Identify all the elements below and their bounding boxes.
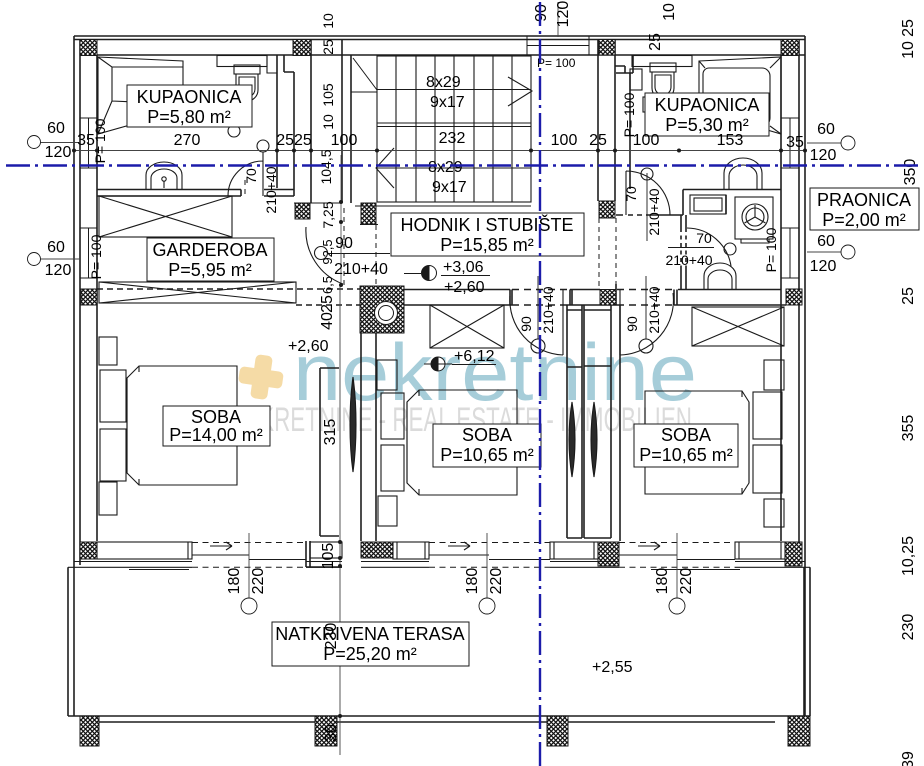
svg-text:+2,55: +2,55 [592, 659, 633, 676]
svg-text:350: 350 [902, 159, 919, 186]
svg-text:25: 25 [589, 132, 607, 149]
svg-text:120: 120 [45, 262, 72, 279]
svg-text:10: 10 [661, 3, 678, 21]
svg-text:180: 180 [464, 568, 481, 595]
svg-text:70: 70 [696, 230, 712, 246]
svg-text:P=2,00 m²: P=2,00 m² [822, 210, 906, 230]
svg-text:60: 60 [817, 121, 835, 138]
svg-text:+2,60: +2,60 [288, 338, 329, 355]
svg-text:P=14,00 m²: P=14,00 m² [169, 425, 263, 445]
svg-text:230: 230 [900, 614, 917, 641]
svg-text:SOBA: SOBA [191, 407, 241, 427]
svg-text:P= 100: P= 100 [88, 234, 104, 279]
svg-text:2525: 2525 [276, 132, 312, 149]
svg-text:104,5: 104,5 [318, 149, 334, 184]
svg-text:P= 100: P= 100 [537, 56, 576, 70]
svg-text:210+40: 210+40 [665, 252, 712, 268]
svg-text:HODNIK I STUBIŠTE: HODNIK I STUBIŠTE [400, 214, 573, 235]
svg-text:100: 100 [331, 132, 358, 149]
svg-text:210+40: 210+40 [263, 166, 279, 213]
svg-text:100: 100 [551, 132, 578, 149]
svg-text:210+40: 210+40 [646, 188, 662, 235]
svg-text:10: 10 [320, 114, 336, 130]
svg-text:153: 153 [717, 132, 744, 149]
svg-text:220: 220 [678, 568, 695, 595]
svg-text:P= 100: P= 100 [621, 92, 637, 137]
svg-text:25: 25 [900, 287, 917, 305]
svg-text:GARDEROBA: GARDEROBA [152, 240, 267, 260]
svg-text:315: 315 [322, 419, 339, 446]
svg-text:40: 40 [319, 312, 336, 330]
svg-text:7,25: 7,25 [320, 201, 336, 228]
svg-text:60: 60 [817, 233, 835, 250]
svg-text:60: 60 [47, 239, 65, 256]
svg-text:120: 120 [45, 144, 72, 161]
svg-text:25: 25 [647, 33, 664, 51]
svg-text:90: 90 [624, 316, 640, 332]
svg-text:8x29: 8x29 [426, 74, 461, 91]
svg-text:8x29: 8x29 [428, 159, 463, 176]
svg-text:PRAONICA: PRAONICA [817, 190, 911, 210]
svg-text:232: 232 [439, 130, 466, 147]
svg-text:25: 25 [319, 295, 336, 313]
svg-text:NATKRIVENA TERASA: NATKRIVENA TERASA [275, 624, 464, 644]
svg-text:270: 270 [174, 132, 201, 149]
svg-text:92,5: 92,5 [320, 239, 335, 264]
svg-text:70: 70 [623, 186, 639, 202]
svg-text:180: 180 [226, 568, 243, 595]
svg-text:10,25: 10,25 [900, 536, 917, 576]
svg-text:39: 39 [900, 751, 917, 766]
svg-text:355: 355 [900, 415, 917, 442]
svg-text:6,5: 6,5 [320, 276, 335, 294]
svg-text:SOBA: SOBA [661, 425, 711, 445]
svg-text:180: 180 [654, 568, 671, 595]
svg-text:P=10,65 m²: P=10,65 m² [440, 445, 534, 465]
svg-text:P= 100: P= 100 [763, 227, 779, 272]
svg-text:KUPAONICA: KUPAONICA [655, 95, 760, 115]
svg-text:P=5,80 m²: P=5,80 m² [147, 107, 231, 127]
svg-text:220: 220 [250, 568, 267, 595]
svg-text:70: 70 [243, 168, 259, 184]
svg-text:210+40: 210+40 [540, 286, 556, 333]
svg-text:10: 10 [320, 13, 336, 29]
svg-text:120: 120 [810, 147, 837, 164]
svg-text:P= 100: P= 100 [92, 118, 108, 163]
svg-text:120: 120 [810, 258, 837, 275]
svg-text:KUPAONICA: KUPAONICA [137, 87, 242, 107]
svg-text:30: 30 [323, 724, 340, 742]
svg-text:210+40: 210+40 [646, 286, 662, 333]
svg-text:105: 105 [320, 83, 336, 107]
svg-text:+3,06: +3,06 [443, 259, 484, 276]
svg-text:SOBA: SOBA [462, 425, 512, 445]
svg-text:90: 90 [533, 4, 550, 22]
svg-text:105: 105 [320, 543, 337, 570]
svg-text:P=15,85 m²: P=15,85 m² [440, 235, 534, 255]
svg-text:220: 220 [488, 568, 505, 595]
svg-text:9x17: 9x17 [430, 94, 465, 111]
svg-text:+2,60: +2,60 [444, 279, 485, 296]
svg-text:90: 90 [335, 235, 353, 252]
svg-text:120: 120 [555, 1, 572, 28]
svg-text:P=10,65 m²: P=10,65 m² [639, 445, 733, 465]
svg-text:P=5,95 m²: P=5,95 m² [168, 260, 252, 280]
svg-text:+6,12: +6,12 [454, 348, 495, 365]
svg-text:35: 35 [786, 134, 804, 151]
svg-text:25: 25 [320, 39, 336, 55]
svg-text:230: 230 [323, 623, 340, 650]
svg-text:60: 60 [47, 120, 65, 137]
svg-text:25: 25 [900, 19, 917, 37]
svg-text:90: 90 [518, 316, 534, 332]
svg-text:210+40: 210+40 [334, 261, 388, 278]
svg-text:10: 10 [900, 41, 917, 59]
svg-text:9x17: 9x17 [432, 179, 467, 196]
